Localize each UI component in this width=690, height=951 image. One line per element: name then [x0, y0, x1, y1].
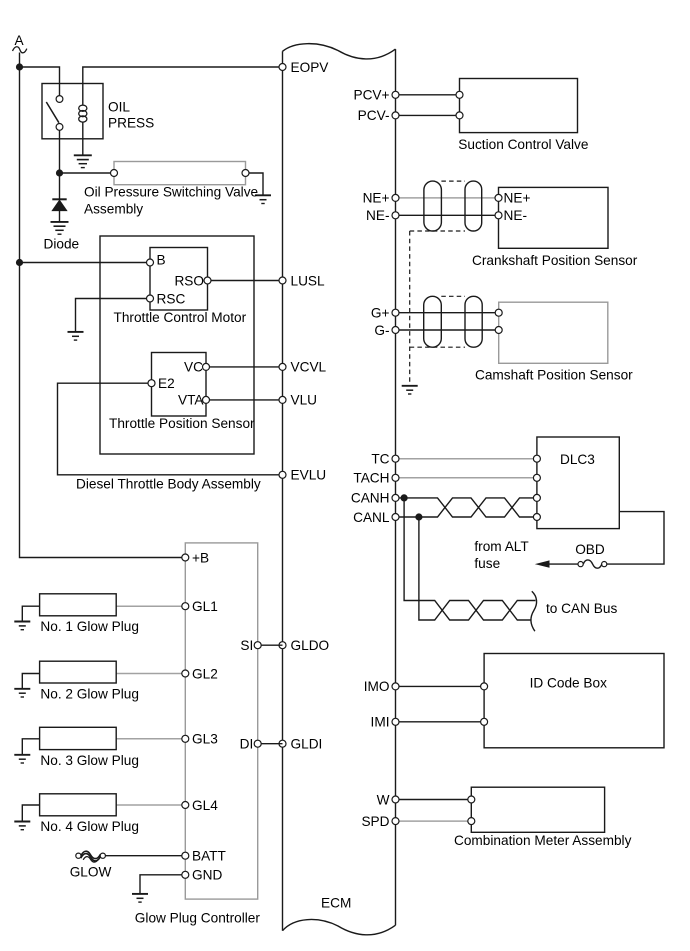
svg-text:RSC: RSC — [157, 291, 186, 306]
ECM pin TC — [392, 455, 399, 462]
wire RSO to LUSL — [208, 280, 283, 282]
controller pin DI — [254, 740, 261, 747]
ECM right edge — [395, 49, 397, 925]
svg-text:OIL: OIL — [108, 99, 130, 114]
sensor pin G- — [495, 327, 502, 334]
svg-text:B: B — [157, 253, 166, 268]
wire GL4 (grey) — [116, 804, 185, 806]
wire relay coil to EOPV — [83, 67, 283, 105]
glow plug resistor box No. 1 Glow Plug — [40, 594, 117, 616]
diode (cathode bar + triangle) — [52, 198, 66, 200]
svg-text:Crankshaft Position Sensor: Crankshaft Position Sensor — [472, 253, 638, 268]
svg-text:OBD: OBD — [575, 542, 605, 557]
wire E2 down and around to EVLU — [58, 383, 283, 475]
svg-text:GLDI: GLDI — [291, 737, 323, 752]
wire rail to relay switch — [20, 67, 60, 99]
twisted pair loop capsule 1 NE — [424, 181, 442, 231]
svg-text:Combination Meter Assembly: Combination Meter Assembly — [454, 833, 632, 848]
wire GL1 (grey) — [116, 605, 185, 607]
OBD fuse circle left — [578, 562, 583, 567]
svg-text:TC: TC — [371, 452, 389, 467]
controller pin GL4 — [182, 802, 189, 809]
relay switch contact circle upper — [56, 96, 63, 103]
svg-text:Diode: Diode — [44, 237, 80, 252]
wire PCV+ — [396, 94, 460, 96]
wire relay switch to junction — [59, 130, 61, 173]
DLC3 box — [537, 437, 619, 529]
ground for sensor shields — [402, 385, 418, 387]
shield dashed top segment G — [441, 295, 465, 297]
wire valve to ground — [249, 173, 263, 195]
ground for No. 3 Glow Plug — [14, 754, 30, 756]
wire G+ — [396, 312, 499, 314]
pin B circle — [147, 259, 154, 266]
svg-text:No. 3 Glow Plug: No. 3 Glow Plug — [40, 753, 139, 768]
controller pin GND — [182, 871, 189, 878]
ground for RSC — [68, 331, 84, 333]
shield dashed bottom segment NE — [410, 230, 465, 232]
pin RSC circle — [147, 295, 154, 302]
ECM left edge — [282, 51, 284, 930]
relay switch contact circle lower — [56, 124, 63, 131]
svg-text:No. 4 Glow Plug: No. 4 Glow Plug — [40, 819, 139, 834]
junction dot at A rail / EOPV branch — [16, 63, 23, 70]
throttle control motor box — [150, 248, 208, 311]
svg-text:GLDO: GLDO — [291, 638, 330, 653]
ECM top wavy edge — [283, 44, 396, 59]
meter pin W — [468, 796, 475, 803]
wire from A down to junction — [19, 53, 21, 68]
CAN bus continuation arc — [531, 591, 537, 631]
ECM pin EOPV — [279, 64, 286, 71]
DLC3 pin CANL — [533, 514, 540, 521]
ECM pin VCVL — [279, 363, 286, 370]
ECM pin G+ — [392, 309, 399, 316]
svg-text:GL3: GL3 — [192, 732, 218, 747]
meter pin SPD — [468, 818, 475, 825]
glow plug resistor box No. 4 Glow Plug — [40, 794, 117, 816]
wire PCV- — [396, 114, 460, 116]
svg-text:VTA: VTA — [178, 393, 204, 408]
controller pin BATT — [182, 852, 189, 859]
crankshaft position sensor box — [499, 187, 609, 248]
ECM pin NE+ — [392, 194, 399, 201]
ground for No. 4 Glow Plug — [14, 821, 30, 823]
OBD fuse circle right — [602, 562, 607, 567]
ground for No. 2 Glow Plug — [14, 688, 30, 690]
valve pin right — [242, 170, 249, 177]
shield dashed bottom segment G — [410, 346, 465, 348]
svg-text:+B: +B — [192, 550, 209, 565]
ground right of valve assembly — [255, 194, 271, 196]
svg-text:EOPV: EOPV — [291, 60, 330, 75]
wire glow plug to ground — [22, 739, 39, 755]
controller pin +B — [182, 554, 189, 561]
GLOW fusible link squiggle — [81, 851, 101, 858]
wire IMI — [396, 721, 485, 723]
svg-text:GND: GND — [192, 868, 222, 883]
sensor pin NE+ — [495, 194, 502, 201]
throttle position sensor box — [152, 353, 207, 417]
wire G- — [396, 329, 499, 331]
ECM pin LUSL — [279, 277, 286, 284]
wire rail to motor pin B — [20, 262, 151, 264]
ECM pin W — [392, 796, 399, 803]
DLC3 pin CANH — [533, 494, 540, 501]
glow plug resistor box No. 3 Glow Plug — [40, 727, 117, 749]
controller pin GL2 — [182, 670, 189, 677]
twisted pair loop capsule 2 G — [465, 296, 482, 347]
svg-text:NE-: NE- — [366, 208, 390, 223]
svg-text:fuse: fuse — [474, 556, 500, 571]
ECM pin CANH — [392, 494, 399, 501]
junction dot on rail at B branch — [16, 259, 23, 266]
wire junction to diode — [59, 173, 61, 199]
svg-text:Diesel Throttle Body Assembly: Diesel Throttle Body Assembly — [76, 476, 261, 491]
wire TACH (grey) — [396, 477, 537, 479]
svg-text:RSO: RSO — [174, 274, 204, 289]
wire IMO — [396, 685, 485, 687]
svg-text:IMI: IMI — [371, 715, 390, 730]
wire junction to oil pressure switching valve — [60, 172, 115, 174]
glow plug resistor box No. 2 Glow Plug — [40, 661, 117, 683]
wire SPD (grey) — [396, 820, 472, 822]
wire coil bottom to ground — [82, 122, 84, 156]
controller pin GL1 — [182, 603, 189, 610]
svg-text:VC: VC — [184, 360, 203, 375]
ECM pin NE- — [392, 212, 399, 219]
svg-text:A: A — [15, 33, 25, 48]
pin RSO circle — [204, 277, 211, 284]
svg-text:ECM: ECM — [321, 896, 351, 911]
svg-text:IMO: IMO — [364, 679, 390, 694]
svg-text:SPD: SPD — [361, 814, 389, 829]
wire CANL branch to CAN bus (twisted) — [419, 517, 536, 620]
svg-text:PCV+: PCV+ — [353, 88, 389, 103]
relay coil loops — [79, 105, 87, 122]
svg-text:GL1: GL1 — [192, 599, 218, 614]
svg-text:Suction Control Valve: Suction Control Valve — [458, 137, 588, 152]
wire W — [396, 799, 472, 801]
svg-text:NE+: NE+ — [504, 191, 531, 206]
ECM pin IMI — [392, 718, 399, 725]
svg-text:ID Code Box: ID Code Box — [530, 675, 608, 690]
svg-text:PCV-: PCV- — [358, 108, 390, 123]
ECM pin PCV+ — [392, 91, 399, 98]
wire glow plug to ground — [22, 606, 39, 621]
twisted pair loop capsule 2 NE — [465, 181, 482, 231]
svg-text:E2: E2 — [158, 376, 175, 391]
shield drain dashed wire to ground — [409, 231, 411, 386]
ground for controller GND — [132, 893, 148, 895]
svg-text:Camshaft Position Sensor: Camshaft Position Sensor — [475, 368, 633, 383]
svg-text:GL4: GL4 — [192, 798, 218, 813]
wire GND to ground — [140, 875, 185, 894]
svg-text:No. 2 Glow Plug: No. 2 Glow Plug — [40, 687, 139, 702]
valve pin PCV+ — [456, 91, 463, 98]
svg-text:BATT: BATT — [192, 849, 227, 864]
DLC3 pin TC — [533, 455, 540, 462]
camshaft position sensor box — [499, 302, 608, 363]
controller pin GL3 — [182, 735, 189, 742]
ECM pin IMO — [392, 683, 399, 690]
wire glow plug to ground — [22, 805, 39, 822]
ECM pin EVLU — [279, 471, 286, 478]
ID code box — [484, 654, 664, 748]
OBD fuse squiggle — [583, 560, 602, 568]
valve pin left — [111, 170, 118, 177]
ECM pin GLDO — [279, 642, 286, 649]
pin VC circle — [203, 363, 210, 370]
relay OIL PRESS box — [42, 84, 103, 139]
svg-text:TACH: TACH — [353, 471, 389, 486]
arrowhead from ALT — [535, 560, 550, 567]
wire RSC to ground — [76, 299, 151, 332]
ground under diode — [51, 221, 69, 223]
ECM pin PCV- — [392, 112, 399, 119]
wire CANH branch to CAN bus (twisted) — [404, 498, 531, 620]
svg-text:G-: G- — [374, 323, 389, 338]
ground under relay coil — [74, 154, 92, 156]
junction dot CANL — [415, 513, 422, 520]
pin E2 circle — [148, 380, 155, 387]
ground for No. 1 Glow Plug — [14, 621, 30, 623]
wire glow plug to ground — [22, 674, 39, 689]
wire DLC3 to OBD fuse — [607, 512, 664, 564]
svg-text:DI: DI — [240, 737, 254, 752]
svg-text:NE+: NE+ — [363, 191, 390, 206]
ECM pin CANL — [392, 514, 399, 521]
wire BATT to fusible link — [105, 855, 185, 857]
svg-text:DLC3: DLC3 — [560, 452, 595, 467]
svg-text:Oil Pressure Switching Valve: Oil Pressure Switching Valve — [84, 185, 258, 200]
diesel throttle body assembly outer box — [100, 236, 254, 454]
GLOW fuse circle right — [100, 853, 105, 858]
ECM bottom wavy edge — [283, 919, 396, 934]
wire NE+ (grey) — [396, 197, 499, 199]
ID box pin IMO — [481, 683, 488, 690]
DLC3 pin TACH — [533, 474, 540, 481]
relay switch blade — [46, 102, 59, 123]
wire GL2 (grey) — [116, 673, 185, 675]
controller pin SI — [254, 642, 261, 649]
svg-text:VCVL: VCVL — [291, 360, 327, 375]
glow plug controller box — [185, 543, 257, 899]
ECM pin G- — [392, 327, 399, 334]
svg-text:Glow Plug Controller: Glow Plug Controller — [135, 911, 261, 926]
combination meter box — [471, 787, 604, 832]
wire NE- — [396, 214, 499, 216]
sensor pin NE- — [495, 212, 502, 219]
shield dashed top segment NE — [441, 180, 465, 182]
svg-text:GL2: GL2 — [192, 666, 218, 681]
wire SI to GLDO — [258, 644, 283, 646]
svg-text:GLOW: GLOW — [70, 865, 112, 880]
svg-text:from ALT: from ALT — [474, 539, 529, 554]
svg-text:Throttle Position Sensor: Throttle Position Sensor — [109, 416, 255, 431]
svg-text:NE-: NE- — [504, 208, 528, 223]
svg-text:LUSL: LUSL — [291, 273, 326, 288]
svg-text:G+: G+ — [371, 306, 390, 321]
CANH/CANL twisted pair wires — [396, 498, 534, 517]
svg-text:to CAN Bus: to CAN Bus — [546, 601, 617, 616]
svg-text:Throttle Control Motor: Throttle Control Motor — [114, 310, 247, 325]
pin VTA circle — [203, 396, 210, 403]
svg-text:Assembly: Assembly — [84, 202, 143, 217]
ID box pin IMI — [481, 718, 488, 725]
junction dot CANH — [401, 494, 408, 501]
suction control valve box — [460, 79, 578, 133]
svg-text:No. 1 Glow Plug: No. 1 Glow Plug — [40, 619, 139, 634]
oil pressure switching valve assembly box — [114, 162, 246, 185]
wire fuse to arrow — [549, 563, 579, 565]
GLOW fuse circle left — [76, 853, 81, 858]
wire VTA to VLU — [206, 399, 283, 401]
svg-text:CANL: CANL — [353, 510, 390, 525]
sensor pin G+ — [495, 309, 502, 316]
ECM pin GLDI — [279, 740, 286, 747]
svg-text:EVLU: EVLU — [291, 468, 327, 483]
wire VC to VCVL — [206, 366, 283, 368]
svg-text:W: W — [377, 792, 390, 807]
left power rail wire (A down to +B corner) — [20, 67, 186, 558]
svg-text:SI: SI — [240, 638, 253, 653]
wire DI to GLDI — [258, 743, 283, 745]
svg-text:PRESS: PRESS — [108, 116, 154, 131]
ECM pin TACH — [392, 474, 399, 481]
ECM pin SPD — [392, 818, 399, 825]
wire GL3 (grey) — [116, 738, 185, 740]
svg-text:CANH: CANH — [351, 491, 390, 506]
wire diode to ground — [59, 211, 61, 222]
ECM pin VLU — [279, 396, 286, 403]
node A break squiggle — [13, 47, 27, 53]
wire TC (grey) — [396, 458, 537, 460]
junction dot oil pressure switch node — [56, 169, 63, 176]
svg-text:VLU: VLU — [291, 393, 318, 408]
twisted pair loop capsule 1 G — [424, 296, 442, 347]
valve pin PCV- — [456, 112, 463, 119]
